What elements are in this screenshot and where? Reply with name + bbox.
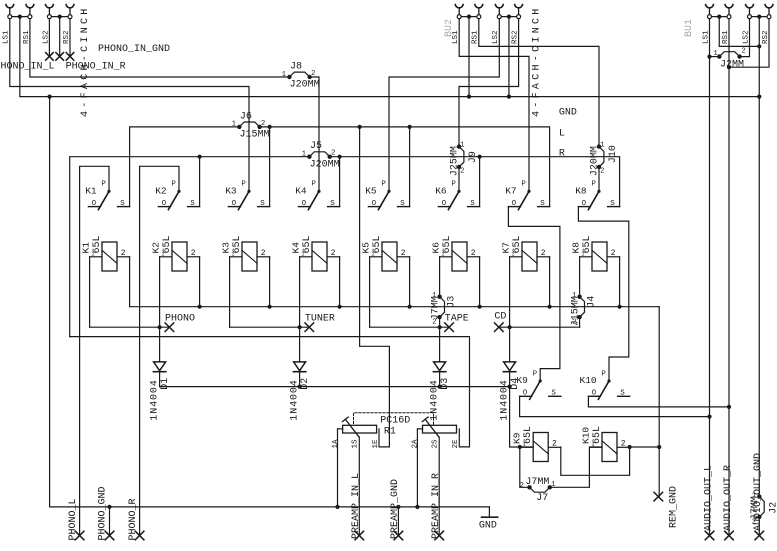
svg-text:2: 2	[611, 249, 616, 258]
control rail CD with X flag	[499, 326, 580, 328]
wire D1 cathode to rail C	[159, 372, 161, 387]
svg-text:2: 2	[600, 168, 604, 176]
potentiometer R1 element 1A (PC16D half)	[332, 417, 380, 449]
relay coil K8 (65L)	[570, 235, 619, 271]
no-connect stub shield2 with X	[59, 17, 61, 57]
wire jumper J1 feed	[710, 56, 720, 58]
diode D1 (1N4004)	[150, 362, 171, 421]
svg-text:K4: K4	[290, 242, 301, 254]
svg-text:K10: K10	[580, 375, 597, 386]
wire K4 coil pin2 to rail A	[339, 257, 341, 307]
svg-text:R: R	[559, 148, 565, 159]
relay coil K9 (65L)	[512, 426, 561, 462]
wire PHONO rail to diode D1	[159, 327, 161, 362]
relay coil K7 (65L)	[500, 235, 549, 271]
svg-text:O: O	[512, 200, 517, 208]
svg-text:1: 1	[713, 50, 717, 58]
wire PHONO_R from X up to K2 pole	[140, 166, 179, 535]
wire AUDIO_OUT_L: BU1.LS1 down to bottom X	[709, 19, 711, 536]
svg-text:PREAMP_IN_R: PREAMP_IN_R	[431, 473, 442, 539]
relay contact K8	[575, 181, 619, 210]
svg-text:2S: 2S	[432, 439, 440, 449]
wire K3 coil pin1 down to TUNER rail	[229, 257, 231, 327]
svg-text:CD: CD	[494, 312, 506, 323]
wire pot 2S wiper to PREAMP_IN_R X	[438, 437, 440, 535]
jumper J2 (J7MM) on AUDIO_OUT_GND	[750, 492, 777, 527]
rail C diode cathodes	[160, 386, 510, 388]
svg-text:2: 2	[621, 439, 626, 448]
relay contact K3	[225, 181, 269, 210]
wire PHONO_L from X up to K1 pole	[80, 166, 109, 535]
bus L (selector output left)	[130, 127, 240, 207]
svg-text:PHONO_L: PHONO_L	[68, 498, 79, 540]
svg-text:1E: 1E	[372, 439, 380, 449]
wire K6.S to bus R	[479, 157, 481, 207]
wire K9.O to AUDIO_OUT_L	[520, 396, 710, 416]
wire J10 pin2 to K8 pole	[598, 167, 600, 191]
svg-text:PC16D: PC16D	[380, 416, 410, 427]
no-connect stub RS2 with X	[69, 19, 71, 57]
svg-text:P: P	[241, 181, 246, 189]
junction bus L / K3.S	[268, 125, 272, 129]
wire J8 pin2 to K4 pole	[310, 77, 319, 191]
svg-text:J6: J6	[240, 111, 252, 122]
wire GND left drop to bottom rail	[50, 97, 490, 507]
wire pot 1A to bottom GND rail	[338, 428, 343, 430]
wire BU1 shield tap1 tie to tap2	[719, 17, 759, 47]
connector BU2 pin RS2	[515, 5, 523, 8]
svg-text:R1: R1	[384, 427, 396, 438]
svg-text:2: 2	[471, 249, 476, 258]
wire K2.S to bus R	[199, 157, 201, 207]
svg-text:2: 2	[552, 439, 557, 448]
wire K7.O to K9 pole	[508, 207, 560, 381]
svg-text:1: 1	[600, 141, 604, 149]
svg-text:P: P	[451, 181, 456, 189]
svg-text:O: O	[232, 200, 237, 208]
svg-text:S: S	[260, 200, 265, 208]
jumper J6 (J15MM)	[232, 111, 270, 140]
svg-text:K2: K2	[150, 242, 161, 254]
svg-text:J8: J8	[290, 61, 302, 72]
svg-text:O: O	[592, 390, 597, 398]
svg-text:J20MM: J20MM	[290, 80, 320, 91]
wire J9 pin2 to K6 pole	[458, 167, 460, 191]
connector BU3 pin RS1	[26, 5, 34, 8]
svg-text:AUDIO_OUT_R: AUDIO_OUT_R	[723, 465, 734, 531]
wire BU2.RS2 to jumper J9 and K6	[459, 19, 519, 147]
wire K3 coil pin2 to rail A	[269, 257, 271, 307]
wire K8.O to K10 pole	[578, 207, 628, 381]
svg-text:S: S	[620, 390, 625, 398]
svg-text:2: 2	[520, 482, 524, 490]
svg-text:J5: J5	[310, 141, 322, 152]
wire D3 cathode to rail C	[439, 372, 441, 387]
svg-text:K8: K8	[575, 185, 587, 196]
svg-text:TAPE: TAPE	[445, 314, 469, 325]
wire K7 coil pin1 down to CD rail	[509, 257, 511, 327]
connector BU1 pin LS1	[706, 5, 714, 8]
wire PREAMP_GND stub from bottom rail to X	[396, 505, 400, 509]
svg-text:P: P	[533, 370, 538, 378]
svg-text:O: O	[92, 200, 97, 208]
wire BU2 shield tap1 to GND rail	[468, 17, 470, 97]
wire REM_GND from rail A down to X	[658, 307, 660, 497]
junction GND rail / left drop	[48, 95, 52, 99]
svg-text:K3: K3	[225, 185, 237, 196]
relay coil K1 (65L)	[80, 235, 129, 271]
relay contact K7	[505, 181, 549, 210]
svg-text:1S: 1S	[352, 439, 360, 449]
jumper J5 (J20MM)	[302, 141, 340, 170]
connector BU1 pin RS1	[725, 5, 733, 8]
wire AUDIO_OUT_R: BU1.RS1 down to bottom X	[728, 19, 730, 536]
svg-text:2: 2	[121, 249, 126, 258]
connector BU2 pin RS1	[475, 5, 483, 8]
svg-text:D1: D1	[160, 378, 171, 390]
svg-text:K3: K3	[220, 242, 231, 254]
svg-text:K10: K10	[580, 427, 591, 444]
wire CD rail to diode D4	[509, 327, 511, 362]
wire K4.S to bus R	[339, 157, 341, 207]
svg-text:D2: D2	[300, 378, 311, 390]
svg-text:O: O	[372, 200, 377, 208]
relay coil K2 (65L)	[150, 235, 199, 271]
bus L continued to K7.S	[260, 127, 550, 207]
wire AUDIO_OUT_GND: BU1 shield tap2 down to bottom X	[758, 17, 760, 497]
svg-text:AUDIO_OUT_GND: AUDIO_OUT_GND	[753, 453, 764, 531]
no-connect stub LS2 with X	[48, 19, 50, 57]
ground symbol GND	[479, 507, 498, 531]
wire PHONO_IN_R: RS1 to jumper J8	[30, 19, 290, 77]
wire K7 coil pin2 to rail A	[549, 257, 551, 307]
junction bus R / K4.S	[338, 155, 342, 159]
svg-text:P: P	[311, 181, 316, 189]
svg-text:J3: J3	[447, 296, 458, 308]
svg-text:D3: D3	[440, 378, 451, 390]
wire D4 cathode junction	[509, 372, 511, 387]
svg-text:TUNER: TUNER	[305, 314, 335, 325]
svg-text:O: O	[162, 200, 167, 208]
wire K6 coil pin1 to jumper J3	[439, 257, 441, 297]
wire TUNER rail to diode D2	[299, 327, 301, 362]
wire K1 coil pin1 down to PHONO rail	[89, 257, 91, 327]
potentiometer R1 dashed outline	[354, 413, 434, 425]
wire K10.O to AUDIO_OUT_R	[588, 396, 729, 407]
wire K9 coil pin2 to K10 coil pin2	[561, 447, 630, 475]
svg-text:S: S	[551, 390, 556, 398]
svg-text:J2: J2	[768, 502, 777, 514]
wire K10 coil pin2 to REM_GND	[630, 446, 660, 448]
relay contact K1	[85, 181, 129, 210]
control rail TUNER with X flag	[230, 326, 310, 328]
svg-text:O: O	[523, 390, 528, 398]
svg-text:2: 2	[541, 249, 546, 258]
svg-text:PHONO_IN_L: PHONO_IN_L	[0, 62, 55, 73]
svg-text:GND: GND	[559, 108, 577, 119]
svg-text:2: 2	[191, 249, 196, 258]
svg-text:S: S	[610, 200, 615, 208]
svg-text:REM_GND: REM_GND	[668, 486, 679, 528]
svg-text:1A: 1A	[332, 439, 340, 449]
svg-text:O: O	[442, 200, 447, 208]
connector BU1 pin LS2	[746, 5, 754, 8]
svg-text:4-FACH-CINCH: 4-FACH-CINCH	[532, 5, 543, 117]
svg-text:P: P	[591, 181, 596, 189]
svg-text:S: S	[470, 200, 475, 208]
control rail PHONO with X flag	[90, 326, 170, 328]
svg-text:BU2: BU2	[444, 19, 455, 37]
bus R continued to K8.S	[330, 157, 620, 207]
svg-text:J10: J10	[608, 145, 619, 163]
relay coil K4 (65L)	[290, 235, 339, 271]
wire K3.S to bus L	[269, 127, 271, 207]
svg-text:PREAMP_IN_L: PREAMP_IN_L	[351, 473, 362, 539]
wire K8 coil pin2 to rail A	[619, 257, 621, 307]
relay coil K6 (65L)	[430, 235, 479, 271]
wire BU1.RS2 tie to RS1	[729, 19, 769, 68]
svg-text:GND: GND	[479, 520, 497, 531]
svg-text:J7: J7	[536, 493, 548, 504]
relay contact K9	[516, 370, 560, 399]
relay coil K5 (65L)	[360, 235, 409, 271]
rail A relay coil common to REM_GND	[130, 257, 660, 307]
svg-text:J2MM: J2MM	[720, 60, 744, 71]
svg-text:S: S	[400, 200, 405, 208]
relay contact K6	[435, 181, 479, 210]
wire pot 2A to bottom GND rail	[417, 428, 422, 430]
diode D3 (1N4004)	[430, 362, 451, 421]
wire J2 pin2 to X	[758, 517, 760, 536]
svg-text:K5: K5	[365, 185, 377, 196]
svg-text:J7MM: J7MM	[525, 477, 549, 488]
relay contact K4	[295, 181, 339, 210]
relay coil K10 (65L)	[580, 426, 629, 462]
svg-text:PHONO_R: PHONO_R	[128, 498, 139, 540]
junction LS1 / jumper J1 feed	[707, 55, 711, 59]
wire D2 cathode to rail C	[299, 372, 301, 387]
svg-text:PHONO_IN_R: PHONO_IN_R	[66, 62, 126, 73]
wire K8 coil pin1 to jumper J4	[579, 257, 581, 297]
svg-text:1: 1	[460, 141, 464, 149]
svg-text:PHONO_GND: PHONO_GND	[98, 486, 109, 540]
wire bus L to pot 1E	[360, 127, 390, 447]
wire pot 1S wiper to PREAMP_IN_L X	[358, 437, 360, 535]
wire J3 pin2 to TAPE rail	[439, 317, 441, 327]
junction bus L / K5.S	[408, 125, 412, 129]
svg-text:L: L	[559, 129, 565, 140]
wire PHONO_GND stub from bottom rail to X	[107, 505, 111, 509]
svg-text:S: S	[330, 200, 335, 208]
svg-text:2A: 2A	[412, 439, 420, 449]
wire K6 coil pin2 to rail A	[479, 257, 481, 307]
svg-text:PREAMP_GND: PREAMP_GND	[390, 479, 401, 539]
connector BU3 pin-pair wires with shield taps	[12, 16, 28, 18]
control rail TAPE with X flag	[370, 326, 450, 328]
wire BU2.RS1 to jumper J10 and K8	[479, 19, 599, 147]
svg-text:K9: K9	[516, 375, 528, 386]
svg-text:J20MM: J20MM	[310, 159, 340, 170]
svg-text:J4: J4	[587, 296, 598, 308]
svg-text:O: O	[302, 200, 307, 208]
svg-text:2: 2	[261, 249, 266, 258]
svg-text:S: S	[120, 200, 125, 208]
svg-text:S: S	[540, 200, 545, 208]
wire K5 coil pin1 down to TAPE rail	[369, 257, 371, 327]
bus R (selector output right)	[70, 157, 310, 337]
wire rail C down to K9 coil pin1	[510, 387, 533, 447]
connector BU1 pin RS2	[765, 5, 773, 8]
relay coil K3 (65L)	[220, 235, 269, 271]
svg-text:K2: K2	[155, 185, 167, 196]
wire PHONO_IN_L: LS1 down, right, to K3 pole	[10, 19, 249, 192]
wire K2 coil pin2 to rail A	[199, 257, 201, 307]
svg-text:O: O	[582, 200, 587, 208]
wire BU2.LS1 to K7 pole	[459, 19, 529, 192]
jumper J9 (J25MM)	[450, 141, 479, 176]
connector BU3 pin RS2	[66, 5, 74, 8]
jumper J3 (J7MM)	[430, 292, 457, 327]
svg-text:2E: 2E	[452, 439, 460, 449]
svg-text:PHONO: PHONO	[165, 314, 195, 325]
connector BU2 pin LS2	[495, 5, 503, 8]
svg-text:K6: K6	[430, 242, 441, 254]
svg-text:2: 2	[331, 249, 336, 258]
wire J7 pin1 to K10 coil pin1	[550, 447, 601, 487]
svg-text:AUDIO_OUT_L: AUDIO_OUT_L	[703, 465, 714, 531]
svg-text:K9: K9	[512, 432, 523, 444]
wire K9 pin1 node down to jumper J7	[520, 447, 530, 487]
relay contact K5	[365, 181, 409, 210]
relay contact K2	[155, 181, 199, 210]
wire J1 pin2 up to BU1.LS2	[740, 19, 750, 57]
svg-text:K1: K1	[85, 185, 97, 196]
svg-text:P: P	[101, 181, 106, 189]
svg-text:1: 1	[282, 71, 286, 79]
svg-text:K7: K7	[500, 242, 511, 253]
wire BU2 shield tap2 to GND rail	[508, 17, 510, 97]
wire K4 coil pin1 to TUNER rail	[299, 257, 301, 327]
svg-text:1: 1	[232, 121, 236, 129]
diode D4 (1N4004)	[500, 362, 521, 421]
jumper J7 (J7MM)	[520, 477, 556, 504]
potentiometer R1 element 2A (PC16D half)	[412, 417, 460, 449]
wire J4 pin2 to CD rail	[579, 317, 581, 327]
wire BU2.LS2 to K5 pole	[389, 19, 499, 192]
junction K9 coil pin1 / J7	[518, 445, 522, 449]
wire TAPE rail to diode D3	[439, 327, 441, 362]
svg-text:P: P	[171, 181, 176, 189]
svg-text:P: P	[601, 370, 606, 378]
svg-text:J15MM: J15MM	[240, 130, 270, 141]
wire bus R to pot 2E	[70, 337, 470, 447]
connector BU2 pin LS1	[455, 5, 463, 8]
svg-text:1: 1	[302, 151, 306, 159]
junction RS1 / RS2 tie	[727, 65, 731, 69]
svg-text:P: P	[521, 181, 526, 189]
connector BU1 pin-pair wires with shield taps	[712, 16, 728, 18]
relay contact K10	[580, 370, 630, 399]
svg-text:P: P	[381, 181, 386, 189]
wire K5 coil pin2 to rail A	[409, 257, 411, 307]
junction bus L / pot 1E drop	[358, 125, 362, 129]
jumper J4 (J15MM)	[570, 292, 597, 327]
svg-text:BU1: BU1	[684, 19, 695, 37]
svg-text:2: 2	[742, 48, 746, 56]
svg-text:K1: K1	[80, 242, 91, 254]
jumper J1 (J2MM) between LS1 and LS2	[713, 48, 745, 71]
svg-text:2: 2	[460, 168, 464, 176]
svg-text:K6: K6	[435, 185, 447, 196]
junction bus R / K6.S	[478, 155, 482, 159]
jumper J8 (J20MM)	[282, 61, 320, 90]
svg-text:PHONO_IN_GND: PHONO_IN_GND	[98, 44, 170, 55]
diode D2 (1N4004)	[290, 362, 311, 421]
jumper J10 (J20MM)	[590, 141, 619, 176]
svg-text:K7: K7	[505, 185, 516, 196]
svg-text:K8: K8	[570, 242, 581, 254]
svg-text:K4: K4	[295, 185, 307, 196]
connector BU2 pin-pair wires with shield taps	[461, 16, 477, 18]
svg-text:S: S	[190, 200, 195, 208]
connector BU3 pin LS2	[46, 5, 54, 8]
junction K10 coil pin2	[628, 445, 632, 449]
wire K2 coil pin1 to PHONO rail	[159, 257, 161, 327]
svg-text:2: 2	[401, 249, 406, 258]
junction bus R / K2.S	[198, 155, 202, 159]
wire GND: shield tap down and GND rail across top	[20, 17, 759, 97]
svg-text:K5: K5	[360, 242, 371, 254]
connector BU3 pin LS1	[6, 5, 14, 8]
wire K5.S to bus L	[409, 127, 411, 207]
